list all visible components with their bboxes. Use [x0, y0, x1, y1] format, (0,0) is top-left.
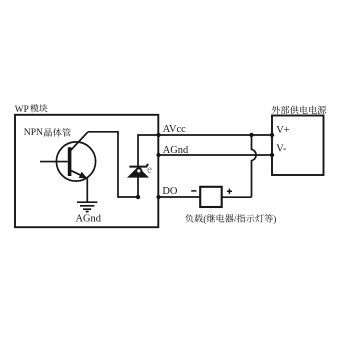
- svg-text:e: e: [147, 164, 152, 176]
- wire: collector up/over/down to DO node: [88, 132, 138, 197]
- label 负载(继电器/指示灯等): [185, 214, 276, 224]
- svg-text:(: (: [203, 214, 206, 224]
- load box: [200, 187, 222, 207]
- label 外部供电电源: [272, 106, 326, 114]
- pin dot AGnd at module edge: [156, 153, 160, 157]
- label WP模块: [15, 104, 48, 115]
- power supply box 外部供电电源: [272, 116, 324, 176]
- svg-text:AGnd: AGnd: [76, 214, 102, 225]
- transistor Q1 (NPN): [40, 132, 96, 181]
- svg-text:V-: V-: [276, 144, 287, 155]
- wire AVcc to V+: [159, 134, 273, 136]
- terminal dot V+: [270, 133, 274, 137]
- WP module box: [15, 115, 158, 227]
- terminal dot V-: [270, 153, 274, 157]
- svg-text:AVcc: AVcc: [163, 124, 186, 135]
- svg-text:NPN: NPN: [24, 127, 43, 138]
- plus sign at load: [227, 189, 232, 194]
- svg-text:WP: WP: [15, 105, 29, 115]
- wire DO to load - terminal: [159, 196, 201, 198]
- pin dot DO at module edge: [156, 195, 160, 199]
- junction: diode anode / DO wire: [136, 195, 140, 199]
- junction dot AVcc / load branch: [249, 133, 253, 137]
- wire: emitter to AGnd ground: [86, 178, 88, 202]
- diode D1 (protection) branch wire: [138, 135, 158, 197]
- svg-text:/: /: [234, 214, 237, 224]
- Q1 emitter arrow: [79, 172, 87, 179]
- svg-text:DO: DO: [162, 186, 178, 197]
- wire load + to AVcc branch: [222, 196, 252, 198]
- svg-text:V+: V+: [276, 125, 290, 136]
- wire AVcc branch down to load + with hop over AGnd: [252, 135, 257, 197]
- label NPN晶体管: [24, 127, 71, 138]
- svg-text:): ): [273, 214, 276, 224]
- pin dot AVcc at module edge: [156, 133, 160, 137]
- ground AGnd symbol: [77, 202, 97, 211]
- wire AGnd to V-: [159, 154, 273, 156]
- minus sign at load: [191, 190, 196, 192]
- diode D1 symbol: [127, 164, 152, 178]
